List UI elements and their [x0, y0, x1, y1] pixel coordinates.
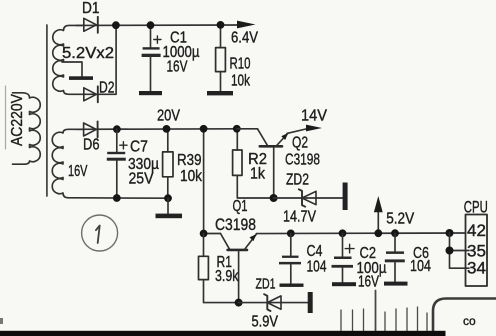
svg-text:D1: D1 — [82, 0, 100, 17]
svg-text:5.2V: 5.2V — [386, 211, 415, 228]
label 5.2V — [386, 211, 415, 228]
svg-text:C7: C7 — [130, 138, 148, 155]
label CPU — [464, 199, 488, 217]
resistor R10 — [216, 25, 226, 92]
transformer T1 core — [46, 25, 48, 196]
capacitor C6 — [385, 233, 405, 281]
ground (16V rail) — [156, 214, 183, 219]
label C1 — [170, 30, 187, 47]
resistor R39 — [163, 129, 173, 198]
svg-text:D6: D6 — [83, 136, 100, 153]
transformer secondary winding 5.2Vx2 — [53, 25, 84, 94]
svg-text:3.9k: 3.9k — [215, 268, 239, 285]
svg-text:R10: R10 — [230, 56, 251, 73]
node R2 top — [233, 125, 241, 133]
pin 35 — [467, 242, 486, 260]
ground (C6) — [384, 282, 408, 286]
label C6 — [413, 245, 429, 262]
svg-text:D2: D2 — [99, 79, 115, 96]
capacitor C7 — [107, 129, 127, 198]
label C4 — [307, 243, 323, 260]
secondary center tap wire — [62, 62, 82, 76]
svg-text:16V: 16V — [167, 59, 188, 76]
wire top 6.4V rail — [76, 24, 240, 26]
label R10 — [230, 56, 251, 73]
arrow 6.4V output — [237, 21, 256, 29]
svg-text:14V: 14V — [301, 108, 328, 125]
label Q1 — [233, 198, 248, 215]
node 20V-Q1 line — [200, 125, 208, 133]
svg-text:20V: 20V — [157, 108, 181, 125]
svg-text:R39: R39 — [177, 152, 202, 169]
svg-text:Q2: Q2 — [292, 135, 308, 152]
label C3198 (Q2) — [285, 152, 320, 169]
svg-text:14.7V: 14.7V — [283, 209, 317, 226]
CPU block — [466, 215, 488, 287]
svg-text:6.4V: 6.4V — [231, 30, 259, 47]
label 5.9V — [252, 314, 279, 331]
svg-text:5.9V: 5.9V — [252, 314, 279, 331]
transistor Q1 — [204, 234, 257, 303]
node C1 top — [147, 21, 155, 29]
ground (C4) — [280, 284, 304, 287]
label Q2 — [292, 135, 308, 152]
svg-text:104: 104 — [307, 259, 327, 276]
label 25V — [129, 170, 155, 187]
label 16V (C1) — [167, 59, 188, 76]
ground (C1) — [139, 91, 162, 95]
node D1-D2 junction — [112, 21, 120, 29]
node C6 top — [391, 229, 399, 237]
svg-text:10k: 10k — [180, 168, 202, 185]
svg-text:16V: 16V — [68, 163, 88, 180]
zener diode ZD1 — [264, 294, 281, 311]
node C4 top — [287, 230, 295, 238]
transformer secondary winding 16V — [52, 129, 83, 198]
svg-text:CPU: CPU — [464, 199, 488, 217]
label C3198 (Q1) — [215, 216, 256, 234]
capacitor C4 — [279, 233, 301, 283]
label R2 — [248, 151, 267, 168]
label 1000u — [163, 44, 200, 61]
svg-text:5.2Vx2: 5.2Vx2 — [62, 45, 114, 62]
node R39 top — [163, 125, 171, 133]
capacitor C2 — [332, 233, 355, 282]
arrow 5.2V output — [374, 196, 383, 233]
node R10 top — [217, 21, 225, 29]
wire 20V to Q1 collector — [203, 129, 205, 234]
svg-text:104: 104 — [410, 258, 431, 275]
node Q1 base / R1 / ZD1 — [235, 299, 243, 307]
arrow 14V — [306, 125, 322, 132]
circled 1 callout — [82, 215, 118, 251]
diode D6 — [84, 121, 98, 137]
scan artifact bottom bar — [0, 318, 446, 336]
label 104 (C6) — [410, 258, 431, 275]
label 330u — [128, 156, 159, 173]
node 20V-C7 — [113, 125, 121, 133]
label ZD1 — [256, 277, 276, 293]
svg-text:16V: 16V — [358, 273, 379, 290]
label 104 (C4) — [307, 259, 327, 276]
label R1 — [217, 254, 233, 271]
svg-text:co: co — [463, 314, 476, 328]
wire 5.2V rail — [256, 232, 465, 235]
wire ZD2 branch — [274, 197, 343, 199]
zener diode ZD2 — [299, 189, 316, 206]
wire 14V output — [287, 129, 308, 134]
node 5.2V arrow — [374, 229, 382, 237]
capacitor C1 — [142, 25, 161, 91]
ground (C2) — [332, 282, 356, 286]
scan edge artifact left — [5, 86, 7, 149]
pin 42 — [467, 222, 486, 240]
node Q1 collector — [200, 230, 208, 238]
transformer T1 primary winding — [13, 93, 41, 164]
diode D1 — [84, 17, 98, 33]
resistor R2 — [233, 129, 274, 198]
label 16V (C2) — [358, 273, 379, 290]
label D6 — [83, 136, 100, 153]
label C7 — [130, 138, 148, 155]
label 5.2Vx2 — [62, 45, 114, 62]
node Q2 base / R2 / ZD2 — [270, 194, 278, 202]
svg-text:34: 34 — [467, 260, 486, 278]
svg-text:Q1: Q1 — [233, 198, 248, 215]
label ZD2 — [286, 172, 309, 189]
svg-text:AC220V: AC220V — [9, 93, 26, 146]
label 14.7V — [283, 209, 317, 226]
wire CPU pin 35/34 — [450, 233, 470, 268]
svg-text:ZD2: ZD2 — [286, 172, 309, 189]
diode D2 — [84, 86, 98, 102]
label 10k (R39) — [180, 168, 202, 185]
node C7 bottom — [113, 194, 121, 202]
label 14V — [301, 108, 328, 125]
pin 34 — [467, 260, 486, 278]
label 10k — [231, 73, 250, 90]
label AC220V — [9, 93, 26, 146]
svg-text:10k: 10k — [231, 73, 250, 90]
svg-text:25V: 25V — [129, 170, 155, 187]
scan artifact comb lines — [341, 291, 427, 331]
resistor R1 — [199, 234, 239, 303]
node C2 top — [339, 229, 347, 237]
svg-text:C4: C4 — [307, 243, 323, 260]
transistor Q2 — [237, 129, 288, 198]
wire ZD1 branch — [239, 302, 308, 304]
label 20V — [157, 108, 181, 125]
ground (R10) — [207, 91, 233, 95]
label 3.9k — [215, 268, 239, 285]
ground (ZD2) — [343, 183, 348, 211]
scan artifact rounded box bottom right — [433, 299, 496, 336]
ground (center tap) — [69, 76, 93, 80]
label 6.4V — [231, 30, 259, 47]
label D2 — [99, 79, 115, 96]
label R39 — [177, 152, 202, 169]
node CPU feed — [446, 229, 454, 237]
label 16V (winding) — [68, 163, 88, 180]
wire 20V rail — [76, 128, 237, 131]
wire D2 branch — [76, 25, 116, 94]
svg-text:35: 35 — [467, 242, 486, 260]
svg-text:42: 42 — [467, 222, 486, 240]
label D1 — [82, 0, 100, 17]
node R39 bottom / ground junction — [164, 194, 172, 213]
svg-text:1k: 1k — [250, 166, 265, 183]
svg-text:C3198: C3198 — [285, 152, 320, 169]
label C2 — [360, 245, 377, 262]
ground (ZD1) — [308, 292, 313, 313]
svg-text:ZD1: ZD1 — [256, 277, 276, 293]
svg-text:C3198: C3198 — [215, 216, 256, 234]
wire 16V bottom rail — [76, 197, 168, 199]
label 100u — [357, 260, 387, 277]
node CPU pin35 branch — [446, 247, 454, 255]
label 1k — [250, 166, 265, 183]
